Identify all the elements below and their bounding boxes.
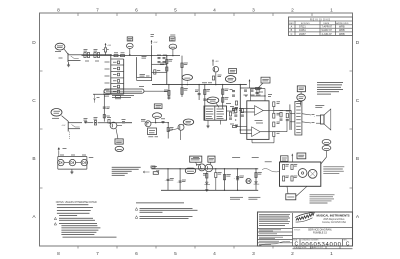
svg-text:6: 6 (135, 251, 138, 257)
svg-text:TITLE:: TITLE: (294, 229, 301, 231)
svg-text:4-JUN-97: 4-JUN-97 (322, 33, 333, 36)
svg-text:5: 5 (174, 8, 177, 14)
svg-text:3: 3 (252, 8, 255, 14)
svg-text:6: 6 (135, 8, 138, 14)
svg-text:9-MAY-97: 9-MAY-97 (322, 29, 333, 32)
svg-text:C: C (32, 98, 36, 104)
svg-text:8: 8 (57, 251, 60, 257)
svg-text:1: 1 (330, 251, 333, 257)
svg-text:WRB: WRB (339, 26, 345, 29)
svg-text:20287: 20287 (299, 33, 306, 36)
svg-text:2: 2 (291, 8, 294, 14)
svg-text:SHEET 1 OF 1: SHEET 1 OF 1 (312, 247, 323, 249)
svg-text:7: 7 (96, 8, 99, 14)
svg-text:RUMBLE 15: RUMBLE 15 (313, 232, 328, 235)
svg-text:C: C (346, 242, 350, 248)
svg-text:Corona, CA 91720 USA: Corona, CA 91720 USA (322, 221, 346, 224)
svg-text:NONE: NONE (302, 247, 308, 249)
svg-text:APPROVED: APPROVED (336, 22, 349, 25)
svg-text:7: 7 (96, 251, 99, 257)
svg-text:NOTES: UNLESS OTHERWISE NOTED: NOTES: UNLESS OTHERWISE NOTED: (56, 202, 98, 204)
svg-text:4: 4 (213, 8, 216, 14)
svg-text:5: 5 (174, 251, 177, 257)
svg-text:2615 Raymond Drive: 2615 Raymond Drive (323, 218, 345, 221)
svg-text:97521: 97521 (299, 26, 306, 29)
svg-text:2: 2 (291, 251, 294, 257)
svg-text:8: 8 (57, 8, 60, 14)
svg-text:B: B (356, 156, 359, 162)
svg-text:1: 1 (330, 8, 333, 14)
svg-text:WRB: WRB (339, 33, 345, 36)
svg-text:10461: 10461 (299, 29, 306, 32)
svg-text:C: C (291, 33, 293, 36)
svg-text:MUSICAL INSTRUMENTS: MUSICAL INSTRUMENTS (317, 214, 350, 218)
svg-text:B: B (32, 156, 35, 162)
svg-text:3: 3 (252, 251, 255, 257)
svg-text:C: C (356, 98, 360, 104)
svg-text:SCALE: SCALE (294, 246, 300, 249)
svg-text:7-APR-97: 7-APR-97 (322, 26, 333, 29)
svg-text:R E V I S I O N S: R E V I S I O N S (310, 17, 330, 21)
svg-text:D: D (356, 40, 360, 46)
svg-text:4: 4 (213, 251, 216, 257)
svg-text:DATE: DATE (324, 22, 330, 25)
svg-text:WRB: WRB (339, 29, 345, 32)
svg-text:D: D (32, 40, 36, 46)
